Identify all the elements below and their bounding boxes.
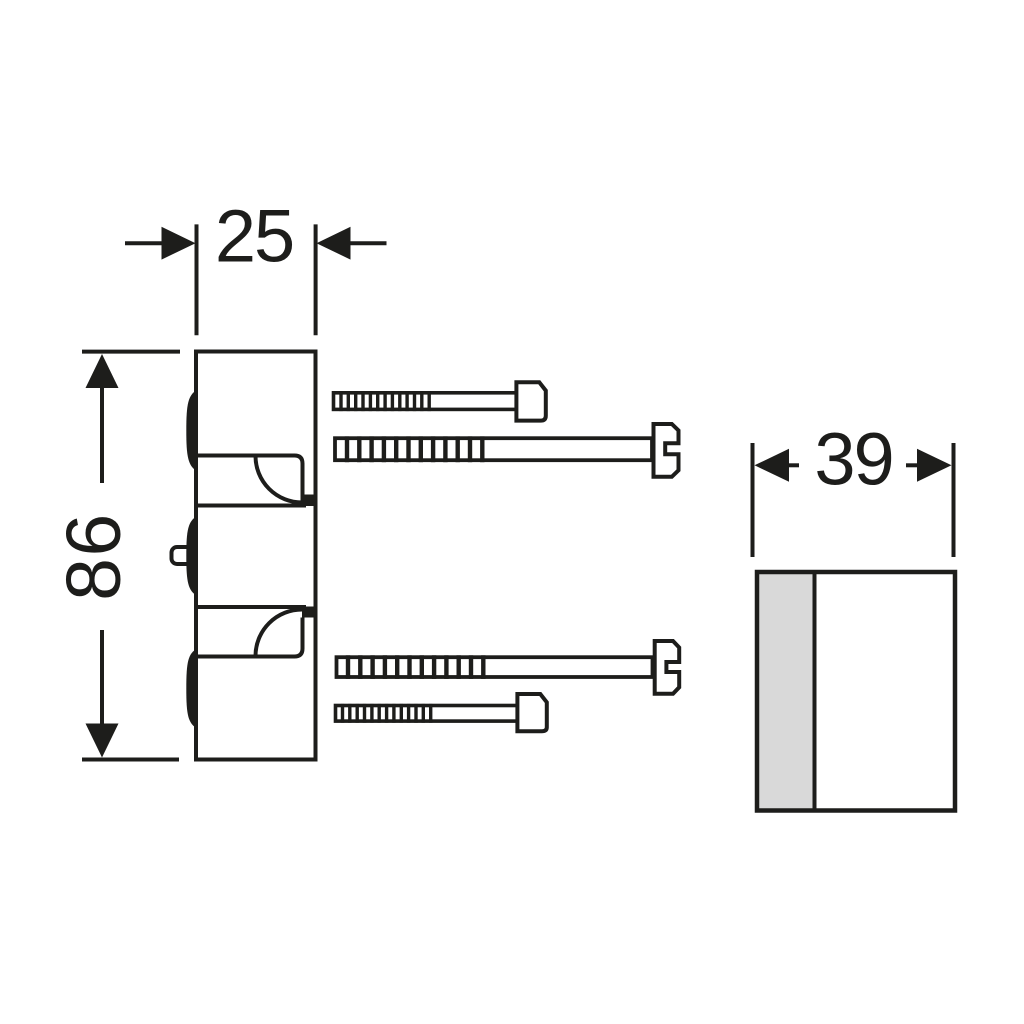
stop tab on spindle xyxy=(172,547,194,564)
divider upper cartridge bottom edge xyxy=(196,504,306,508)
screw S2 slotted head xyxy=(654,424,679,477)
front view box outline xyxy=(757,572,955,811)
divider lower cartridge top edge xyxy=(196,605,306,609)
dim 86 arrow up xyxy=(100,387,104,483)
svg-text:25: 25 xyxy=(215,195,293,278)
dim 39 arrow left xyxy=(789,463,799,467)
screw S2 threads xyxy=(347,436,482,462)
dim 25 extension line right xyxy=(314,224,318,335)
screw S4 cap head xyxy=(517,694,546,731)
screw S1 shaft xyxy=(334,393,517,410)
lens top port (black) xyxy=(186,390,197,472)
dim 25 arrow left xyxy=(125,241,168,245)
valve body outline (side view) xyxy=(196,352,316,760)
lens bottom port (black) xyxy=(186,648,197,728)
dim 39 extension line left xyxy=(751,443,755,557)
dim 86 extension line top xyxy=(82,350,180,354)
screw S4 shaft xyxy=(336,706,518,722)
divider lower cartridge bottom edge xyxy=(196,618,303,657)
arc lower cartridge swing xyxy=(256,610,303,657)
seal block lower (black) xyxy=(302,607,316,618)
dim 25 arrow right xyxy=(344,241,387,245)
screw S3 shaft xyxy=(337,657,653,677)
screw S4 threads xyxy=(343,704,431,723)
dim 39 arrow right xyxy=(906,463,917,467)
svg-text:86: 86 xyxy=(51,512,137,601)
front view divider xyxy=(813,570,817,812)
dim 86 arrow down xyxy=(100,630,104,725)
dim 25 extension line left xyxy=(195,224,199,335)
dim 39 extension line right xyxy=(952,443,956,557)
screw S3 threads xyxy=(348,655,483,679)
lens middle spindle (black) xyxy=(186,516,197,596)
svg-text:39: 39 xyxy=(814,418,892,501)
screw S1 cap head xyxy=(516,382,545,420)
dim 86 extension line bottom xyxy=(82,758,179,762)
screw S2 shaft xyxy=(335,438,652,460)
seal block upper (black) xyxy=(302,495,316,507)
screw S1 threads xyxy=(341,391,429,411)
divider upper cartridge top edge xyxy=(196,456,303,503)
front view grey strip xyxy=(755,570,815,812)
arc upper cartridge swing xyxy=(256,456,303,503)
screw S3 slotted head xyxy=(655,641,680,694)
